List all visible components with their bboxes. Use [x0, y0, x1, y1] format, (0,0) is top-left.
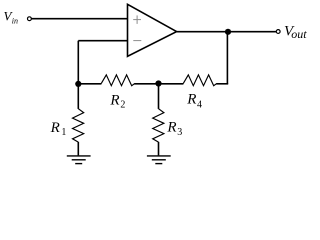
svg-text:1: 1 [61, 127, 66, 138]
svg-text:in: in [12, 16, 18, 25]
svg-text:4: 4 [197, 100, 202, 111]
svg-text:R: R [186, 92, 196, 108]
svg-text:R: R [166, 120, 176, 136]
svg-text:R: R [50, 120, 60, 136]
svg-text:2: 2 [120, 100, 125, 111]
svg-text:out: out [291, 27, 307, 41]
svg-text:R: R [109, 92, 119, 108]
svg-text:3: 3 [177, 127, 182, 138]
